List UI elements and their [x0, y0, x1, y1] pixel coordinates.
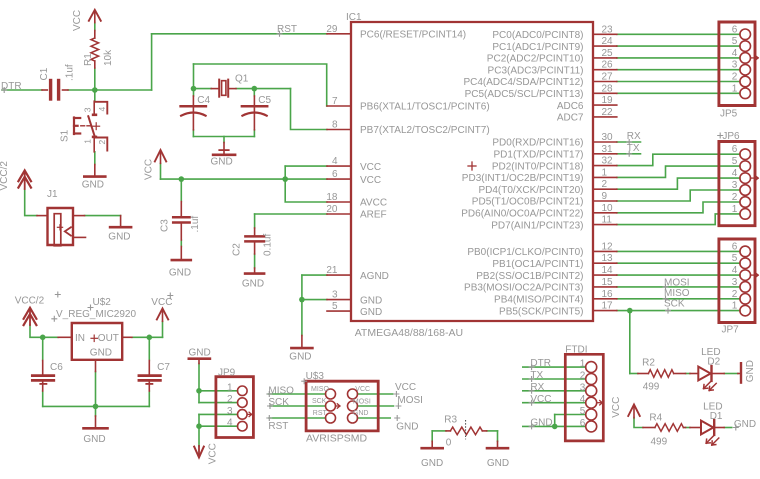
svg-text:GND: GND: [353, 410, 369, 417]
svg-text:1: 1: [732, 301, 738, 312]
svg-text:C5: C5: [258, 95, 271, 106]
svg-text:28: 28: [602, 83, 614, 94]
svg-text:18: 18: [326, 192, 338, 203]
svg-text:26: 26: [602, 60, 614, 71]
svg-text:IC1: IC1: [346, 12, 362, 23]
svg-text:29: 29: [326, 24, 338, 35]
svg-text:PD5(T1/OC0B/PCINT21): PD5(T1/OC0B/PCINT21): [472, 197, 584, 208]
svg-text:DTR: DTR: [1, 81, 22, 92]
svg-text:RST: RST: [277, 24, 297, 35]
svg-text:22: 22: [602, 107, 614, 118]
svg-text:PC2(ADC2/PCINT10): PC2(ADC2/PCINT10): [487, 54, 584, 65]
svg-text:PD4(T0/XCK/PCINT20): PD4(T0/XCK/PCINT20): [478, 185, 583, 196]
svg-text:C4: C4: [197, 95, 210, 106]
svg-text:PC1(ADC1/PCINT9): PC1(ADC1/PCINT9): [492, 42, 583, 53]
svg-text:JP9: JP9: [218, 368, 236, 379]
svg-text:4: 4: [332, 156, 338, 167]
svg-text:3: 3: [732, 277, 738, 288]
svg-text:GND: GND: [169, 268, 191, 279]
svg-text:PD6(AIN0/OC0A/PCINT22): PD6(AIN0/OC0A/PCINT22): [461, 209, 583, 220]
svg-text:20: 20: [326, 204, 338, 215]
svg-text:PD3(INT1/OC2B/PCINT19): PD3(INT1/OC2B/PCINT19): [462, 173, 584, 184]
svg-text:ADC6: ADC6: [557, 101, 584, 112]
svg-text:MISO: MISO: [311, 386, 329, 393]
svg-text:10k: 10k: [103, 49, 114, 66]
svg-text:VCC/2: VCC/2: [0, 161, 10, 191]
svg-text:C3: C3: [160, 219, 171, 232]
svg-text:3: 3: [732, 60, 738, 71]
svg-text:SCK: SCK: [268, 397, 289, 408]
svg-text:JP5: JP5: [720, 109, 738, 120]
svg-text:PB7(XTAL2/TOSC2/PCINT7): PB7(XTAL2/TOSC2/PCINT7): [360, 125, 490, 136]
svg-text:VCC: VCC: [611, 397, 622, 418]
svg-text:2: 2: [732, 192, 738, 203]
svg-text:PD1(TXD/PCINT17): PD1(TXD/PCINT17): [493, 150, 583, 161]
svg-text:31: 31: [602, 144, 614, 155]
svg-text:PB6(XTAL1/TOSC1/PCINT6): PB6(XTAL1/TOSC1/PCINT6): [360, 102, 490, 113]
svg-text:5: 5: [732, 253, 738, 264]
svg-text:GND: GND: [83, 434, 105, 445]
svg-text:1: 1: [602, 167, 608, 178]
svg-text:JP6: JP6: [722, 131, 740, 142]
svg-text:23: 23: [602, 24, 614, 35]
svg-text:.1uf: .1uf: [190, 216, 201, 233]
svg-text:IN: IN: [75, 333, 85, 344]
svg-text:13: 13: [602, 253, 614, 264]
svg-text:VCC: VCC: [144, 159, 155, 180]
svg-text:R2: R2: [642, 357, 655, 368]
svg-text:C6: C6: [50, 362, 63, 373]
svg-text:1: 1: [732, 204, 738, 215]
svg-text:ADC7: ADC7: [557, 113, 584, 124]
svg-text:MOSI: MOSI: [664, 277, 690, 288]
svg-text:GND: GND: [421, 458, 443, 469]
svg-text:0.1uf: 0.1uf: [263, 234, 274, 256]
svg-text:2: 2: [732, 72, 738, 83]
svg-text:C7: C7: [157, 362, 170, 373]
svg-text:9: 9: [602, 191, 608, 202]
svg-text:R1: R1: [83, 53, 94, 66]
svg-text:VCC/2: VCC/2: [15, 296, 45, 307]
svg-text:VCC: VCC: [530, 394, 551, 405]
svg-text:19: 19: [602, 95, 614, 106]
svg-text:PC5(ADC5/SCL/PCINT13): PC5(ADC5/SCL/PCINT13): [465, 89, 584, 100]
svg-text:10: 10: [602, 203, 614, 214]
svg-text:FTDI: FTDI: [565, 345, 587, 356]
svg-text:JP7: JP7: [722, 325, 740, 336]
svg-text:499: 499: [643, 382, 660, 393]
svg-text:5: 5: [732, 36, 738, 47]
svg-text:GND: GND: [82, 179, 104, 190]
svg-text:SCK: SCK: [664, 298, 685, 309]
svg-text:1: 1: [227, 382, 233, 393]
svg-text:6: 6: [732, 144, 738, 155]
svg-text:24: 24: [602, 36, 614, 47]
svg-text:4: 4: [732, 168, 738, 179]
svg-text:AVRISPSMD: AVRISPSMD: [306, 433, 367, 445]
svg-text:PC3(ADC3/PCINT11): PC3(ADC3/PCINT11): [488, 65, 584, 76]
svg-text:PB1(OC1A/PCINT1): PB1(OC1A/PCINT1): [492, 259, 583, 270]
svg-text:30: 30: [602, 132, 614, 143]
svg-text:4: 4: [227, 418, 233, 429]
svg-text:V_REG_MIC2920: V_REG_MIC2920: [56, 309, 136, 320]
svg-text:5: 5: [332, 301, 338, 312]
svg-text:3: 3: [227, 406, 233, 417]
svg-text:25: 25: [602, 48, 614, 59]
svg-text:PD7(AIN1/PCINT23): PD7(AIN1/PCINT23): [491, 220, 583, 231]
svg-text:PC0(ADC0/PCINT8): PC0(ADC0/PCINT8): [492, 30, 583, 41]
svg-text:GND: GND: [487, 458, 509, 469]
svg-text:GND: GND: [242, 279, 264, 290]
svg-text:U$2: U$2: [93, 297, 112, 308]
svg-text:PB0(ICP1/CLKO/PCINT0): PB0(ICP1/CLKO/PCINT0): [467, 247, 583, 258]
svg-text:Q1: Q1: [235, 74, 249, 85]
svg-text:3: 3: [732, 180, 738, 191]
svg-text:1: 1: [580, 359, 586, 370]
svg-text:499: 499: [651, 436, 668, 447]
svg-text:5: 5: [732, 156, 738, 167]
svg-text:1: 1: [732, 83, 738, 94]
svg-text:4: 4: [97, 107, 107, 112]
svg-text:4: 4: [732, 48, 738, 59]
svg-text:GND: GND: [530, 418, 552, 429]
svg-text:S1: S1: [60, 129, 71, 142]
svg-text:C1: C1: [39, 67, 50, 80]
svg-text:12: 12: [602, 241, 614, 252]
svg-text:GND: GND: [289, 351, 311, 362]
svg-text:27: 27: [602, 72, 614, 83]
svg-text:MOSI: MOSI: [397, 395, 423, 406]
svg-text:R4: R4: [649, 412, 662, 423]
svg-text:RX: RX: [627, 131, 641, 142]
svg-text:RX: RX: [530, 382, 544, 393]
svg-text:17: 17: [602, 301, 614, 312]
svg-text:GND: GND: [396, 422, 418, 433]
svg-text:16: 16: [602, 289, 614, 300]
svg-text:D1: D1: [710, 411, 723, 422]
svg-text:PC6(/RESET/PCINT14): PC6(/RESET/PCINT14): [360, 30, 466, 41]
svg-text:J1: J1: [47, 189, 58, 200]
svg-text:AGND: AGND: [360, 271, 389, 282]
svg-text:8: 8: [332, 120, 338, 131]
svg-text:32: 32: [602, 156, 614, 167]
svg-text:VCC: VCC: [151, 297, 172, 308]
svg-text:PD0(RXD/PCINT16): PD0(RXD/PCINT16): [492, 138, 583, 149]
svg-text:VCC: VCC: [72, 10, 83, 31]
svg-text:14: 14: [602, 265, 614, 276]
svg-text:6: 6: [580, 418, 586, 429]
svg-text:GND: GND: [189, 348, 211, 359]
svg-text:6: 6: [732, 24, 738, 35]
svg-text:TX: TX: [627, 143, 640, 154]
svg-text:GND: GND: [108, 231, 130, 242]
svg-text:ATMEGA48/88/168-AU: ATMEGA48/88/168-AU: [355, 327, 463, 339]
svg-text:U$3: U$3: [306, 371, 325, 382]
svg-text:PD2(INT0/PCINT18): PD2(INT0/PCINT18): [492, 161, 584, 172]
svg-text:SCK: SCK: [312, 398, 327, 405]
svg-text:VCC: VCC: [360, 175, 381, 186]
svg-text:TX: TX: [530, 370, 543, 381]
svg-text:PC4(ADC4/SDA/PCINT12): PC4(ADC4/SDA/PCINT12): [463, 77, 583, 88]
svg-text:21: 21: [326, 265, 338, 276]
svg-text:VCC: VCC: [360, 162, 381, 173]
svg-text:RST: RST: [313, 410, 328, 417]
svg-text:AVCC: AVCC: [360, 198, 387, 209]
svg-text:2: 2: [227, 394, 233, 405]
svg-text:DTR: DTR: [530, 358, 551, 369]
svg-text:PB4(MISO/PCINT4): PB4(MISO/PCINT4): [494, 295, 583, 306]
svg-text:RST: RST: [268, 421, 288, 432]
svg-text:4: 4: [732, 265, 738, 276]
svg-text:GND: GND: [360, 307, 382, 318]
svg-text:4: 4: [580, 394, 586, 405]
svg-text:GND: GND: [360, 295, 382, 306]
svg-text:7: 7: [332, 96, 338, 107]
svg-text:.1uf: .1uf: [65, 64, 76, 81]
svg-text:2: 2: [97, 140, 107, 145]
svg-text:2: 2: [580, 371, 586, 382]
svg-text:15: 15: [602, 277, 614, 288]
svg-text:GND: GND: [734, 419, 756, 430]
svg-text:R3: R3: [444, 414, 457, 425]
svg-text:MOSI: MOSI: [353, 398, 371, 405]
svg-text:6: 6: [332, 169, 338, 180]
svg-text:PB5(SCK/PCINT5): PB5(SCK/PCINT5): [499, 306, 583, 317]
svg-text:3: 3: [332, 290, 338, 301]
svg-text:VCC: VCC: [395, 382, 416, 393]
svg-text:PB3(MOSI/OC2A/PCINT3): PB3(MOSI/OC2A/PCINT3): [464, 283, 583, 294]
svg-text:1: 1: [82, 139, 92, 144]
svg-text:11: 11: [602, 215, 613, 226]
svg-text:D2: D2: [707, 356, 720, 367]
svg-text:GND: GND: [211, 156, 233, 167]
svg-text:3: 3: [83, 107, 93, 112]
svg-text:6: 6: [732, 241, 738, 252]
svg-text:C2: C2: [232, 243, 243, 256]
svg-text:VCC: VCC: [207, 443, 218, 464]
svg-text:GND: GND: [745, 360, 756, 382]
svg-text:0: 0: [446, 437, 452, 448]
svg-text:OUT: OUT: [98, 333, 119, 344]
svg-text:2: 2: [732, 289, 738, 300]
svg-text:3: 3: [580, 382, 586, 393]
svg-text:AREF: AREF: [360, 210, 387, 221]
svg-text:MISO: MISO: [268, 385, 294, 396]
svg-text:PB2(SS/OC1B/PCINT2): PB2(SS/OC1B/PCINT2): [476, 271, 583, 282]
svg-text:VCC: VCC: [355, 386, 370, 393]
svg-text:5: 5: [580, 406, 586, 417]
svg-text:GND: GND: [90, 348, 112, 359]
svg-text:2: 2: [602, 179, 608, 190]
